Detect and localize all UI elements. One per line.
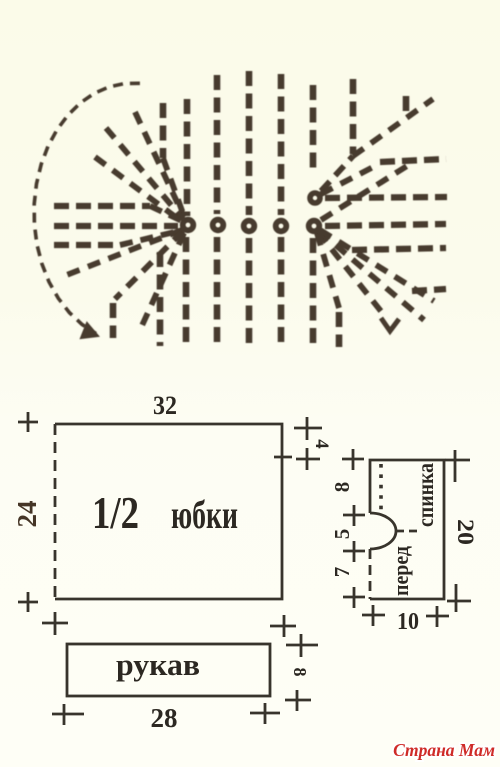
tick right bottom: [447, 584, 471, 612]
left row y245: [54, 242, 120, 248]
bodice dotted shoulder line: [379, 464, 383, 512]
chain ring 1: [183, 220, 194, 231]
right down ray D1: [317, 233, 339, 308]
left down-left 45 ray: [115, 231, 183, 299]
bodice dashed neck line: [396, 530, 422, 533]
chain-loop arc: [34, 83, 140, 333]
right row y290: [412, 289, 446, 291]
svg-text:спинка: спинка: [413, 463, 438, 527]
dc column x281 bottom: [278, 237, 285, 347]
skirt rectangle solid sides: [55, 424, 282, 599]
bodice neck curve: [370, 513, 396, 549]
right down ray D4: [320, 230, 434, 301]
right row y249: [352, 248, 446, 250]
svg-text:32: 32: [153, 391, 177, 420]
tick right top: [445, 450, 470, 482]
dc column x186 bottom: [183, 237, 190, 346]
dc column x160 bottom: [157, 252, 164, 346]
dc column x281 top: [278, 74, 285, 215]
dc column x353 top: [350, 79, 357, 154]
tick bottom left: [52, 704, 84, 725]
left fan: 45deg ray: [106, 128, 183, 219]
left row y245 connector: [120, 230, 183, 245]
tick bottom-left: [18, 592, 38, 612]
tick right upper: [286, 634, 318, 657]
skirt left dashed side: [54, 424, 57, 599]
dc column x217 bottom: [214, 237, 221, 347]
dc column x187 top: [184, 99, 191, 216]
left fan: x163 connector: [163, 158, 185, 219]
chain ring 3: [244, 221, 255, 232]
svg-text:4: 4: [311, 439, 332, 449]
short column x113 bottom: [110, 303, 117, 338]
chain ring 5: [309, 221, 320, 232]
tick top-left: [18, 412, 38, 432]
left down-left shallow ray: [64, 230, 182, 276]
right down ray D2: [318, 232, 384, 315]
svg-text:юбки: юбки: [171, 492, 238, 537]
tick bottom right: [426, 606, 449, 627]
right row y225: [325, 224, 446, 226]
arc arrowhead: [81, 323, 98, 338]
svg-text:24: 24: [12, 501, 42, 528]
dc column x249 top: [246, 71, 253, 215]
right fan: ray C5 up: [321, 166, 407, 220]
svg-text:7: 7: [330, 567, 354, 578]
svg-text:рукав: рукав: [116, 647, 200, 682]
right fan: shallow ray C6: [321, 165, 377, 194]
tick below-left: [42, 612, 68, 635]
right down ray D3: [319, 231, 424, 320]
tick on right edge: [274, 456, 292, 459]
dc column x217 top: [214, 75, 221, 214]
chain ring 4: [276, 221, 287, 232]
dc column x249 bottom: [246, 238, 253, 347]
svg-text:8: 8: [290, 668, 310, 677]
sleeve rectangle: [67, 644, 270, 696]
svg-text:Страна Мам: Страна Мам: [393, 740, 495, 760]
left fan: 30deg ray: [95, 157, 181, 221]
tick left 4: [343, 587, 365, 608]
svg-text:5: 5: [330, 529, 354, 540]
tick left 3: [343, 541, 365, 562]
chain ring 6: [310, 193, 320, 203]
right row y161: [380, 159, 446, 162]
svg-text:10: 10: [397, 609, 419, 635]
left row y206 connector: [150, 206, 182, 221]
tick left 1: [342, 449, 364, 470]
svg-text:8: 8: [330, 482, 354, 493]
tick below-right: [270, 615, 296, 637]
dc column x313 top: [310, 85, 317, 168]
dc column x406 top: [403, 96, 410, 118]
dc column x339 bottom: [336, 312, 343, 347]
right fan: ray to vertex: [321, 156, 353, 191]
svg-text:1/2: 1/2: [92, 488, 139, 538]
left fan: 60deg ray: [135, 112, 184, 217]
left down steep ray: [140, 233, 184, 330]
svg-text:перед: перед: [388, 546, 413, 596]
tick right lower: [285, 690, 311, 711]
tick bottom right: [250, 703, 280, 724]
tick mid-right: [296, 448, 320, 470]
bodice left dashed: [369, 549, 372, 599]
svg-text:28: 28: [151, 703, 178, 733]
left row y206: [54, 203, 150, 209]
right fan: long diagonal: [353, 99, 433, 156]
svg-text:20: 20: [453, 519, 478, 545]
dc column x313 bottom: [310, 238, 317, 343]
right row y198: [325, 197, 447, 198]
tick left 2: [343, 505, 365, 526]
small V mark: [381, 318, 399, 331]
bodice outline solid: [370, 460, 444, 599]
tick top-right: [294, 417, 322, 440]
left row y226: [54, 223, 178, 229]
dc column x163 top: [160, 103, 167, 158]
chain ring 2: [213, 220, 224, 231]
tick bottom left: [362, 605, 385, 626]
